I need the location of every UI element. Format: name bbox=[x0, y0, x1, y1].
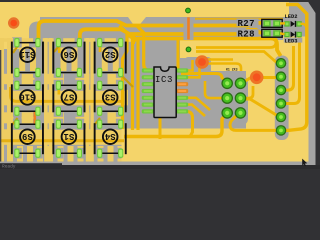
svg-text:S9: S9 bbox=[22, 131, 33, 141]
IC3 pads left bbox=[142, 68, 154, 113]
svg-text:R28: R28 bbox=[238, 30, 255, 40]
wire connector mid-right stub bbox=[242, 86, 253, 98]
connector grey base bbox=[220, 76, 249, 125]
board right copper region bbox=[246, 40, 309, 162]
IC3 body outline bbox=[154, 67, 176, 118]
wire R28 to LED3 bbox=[280, 33, 285, 34]
wire stub olive 1 bbox=[13, 46, 18, 53]
wire vertical fan 3 bbox=[131, 34, 139, 131]
header pin pads right column bbox=[276, 58, 287, 136]
wire stub olive 2 bbox=[54, 46, 59, 52]
wire stub bright S2 pad bbox=[99, 47, 102, 53]
switch S11 bbox=[11, 38, 44, 77]
wire vertical fan 1 bbox=[120, 26, 128, 130]
via green dot top bbox=[186, 8, 191, 13]
switch S1 bbox=[52, 120, 85, 158]
IC3 pin stubs left bbox=[142, 76, 153, 78]
ground pads blocks row 1 bbox=[12, 37, 125, 77]
wire V_a to header pad3 bbox=[284, 46, 294, 90]
board top-left copper patch bbox=[0, 17, 40, 49]
wire row2 horizontal bus bbox=[11, 87, 125, 101]
LED2 bbox=[284, 14, 302, 27]
wire stub olive 5 bbox=[121, 75, 133, 87]
wire pour behind switch row 2 bbox=[0, 90, 128, 106]
pad island grey blob under via bbox=[185, 57, 211, 72]
svg-text:S7: S7 bbox=[63, 92, 74, 102]
via green dot island bbox=[186, 47, 191, 52]
wire band above switch row 1 bbox=[0, 38, 134, 42]
svg-text:LED2: LED2 bbox=[285, 14, 298, 20]
wire bars inside row1 footprints bbox=[19, 48, 119, 72]
IC IC3 (DIP-14) bbox=[142, 60, 210, 118]
vertical bus wires (switch matrix comb) bbox=[0, 38, 94, 162]
svg-text:R27: R27 bbox=[238, 19, 255, 29]
svg-text:IC3: IC3 bbox=[155, 75, 173, 85]
wire stub olive 3 bbox=[95, 118, 100, 124]
wire IC3 bottom left drop bbox=[159, 118, 162, 139]
wire R27 to LED2 bbox=[280, 22, 285, 24]
via orange top-left bbox=[8, 17, 19, 28]
switch S7 bbox=[52, 81, 85, 116]
resistor R27 bbox=[237, 19, 283, 29]
connector B1 pads bbox=[221, 78, 246, 119]
svg-text:K1 2X3: K1 2X3 bbox=[226, 68, 238, 72]
board copper island near IC3 bbox=[180, 40, 246, 71]
switch S10 bbox=[11, 81, 44, 116]
board yellow wedge node bbox=[128, 17, 146, 26]
ground pads blocks rows 2-3 bbox=[12, 80, 125, 159]
wire IC3 pin7 drop bbox=[186, 111, 193, 136]
wire y51.5 to header pad1 bbox=[196, 52, 277, 63]
wire border trace top-right bbox=[283, 5, 307, 131]
switch S6 bbox=[52, 38, 85, 77]
LED3 bbox=[284, 32, 303, 45]
wire orange net bbox=[187, 17, 190, 39]
wire island H to connector bbox=[181, 74, 227, 83]
wire diagonal to header pad5 bbox=[242, 99, 281, 116]
svg-text:LED3: LED3 bbox=[285, 38, 298, 44]
wire stub bright S7 pad bbox=[57, 89, 60, 95]
via orange near island bbox=[195, 55, 209, 69]
wire island top pair bbox=[200, 58, 233, 61]
wire connector mid-left stub bbox=[205, 81, 227, 98]
header bar grey base bbox=[275, 56, 289, 141]
svg-text:S4: S4 bbox=[104, 131, 115, 141]
wire stub bright S6 pad bbox=[57, 47, 60, 54]
wire LED2 to border bbox=[301, 24, 308, 28]
svg-text:S1: S1 bbox=[63, 131, 74, 141]
wire y47.5 H bbox=[196, 39, 276, 48]
wire H137 bottom bbox=[124, 113, 227, 137]
IC3 pads right bbox=[176, 68, 188, 113]
switch S9 bbox=[11, 120, 44, 158]
IC3 pin stubs right bbox=[177, 60, 193, 71]
wire via2 diagonal bbox=[242, 78, 276, 84]
wire V_b to header pad4 bbox=[284, 37, 300, 104]
wire T1 horizontal bbox=[39, 21, 262, 41]
wire T2 horizontal bbox=[80, 29, 262, 41]
ground pour (grey editor field) bbox=[0, 2, 316, 165]
resistor R28 bbox=[237, 29, 283, 39]
board top copper band bbox=[0, 2, 289, 17]
wire upper stub H bbox=[195, 18, 283, 20]
window frame dark edges bbox=[0, 0, 320, 2]
svg-text:S3: S3 bbox=[105, 92, 116, 102]
wire blocks row gap 2 bbox=[0, 112, 122, 123]
ground channel for orange net bbox=[184, 17, 194, 40]
board left edge shadow bbox=[0, 50, 1, 162]
via orange right bbox=[250, 71, 264, 85]
wire blocks row gap 1 bbox=[0, 74, 122, 84]
wire to IC3 pin 1 bbox=[137, 26, 150, 71]
mouse cursor bbox=[302, 159, 307, 167]
svg-text:S2: S2 bbox=[105, 49, 116, 59]
wire T3 horizontal bbox=[133, 39, 281, 57]
svg-text:S11: S11 bbox=[19, 49, 36, 59]
wire island top pair 2 bbox=[200, 64, 241, 72]
switch S2 bbox=[94, 38, 127, 77]
switch S4 bbox=[94, 120, 127, 158]
wire pour behind switch row 3 bbox=[0, 129, 128, 145]
wire row3 horizontal bus bbox=[0, 139, 124, 142]
board bottom copper region bbox=[122, 129, 309, 162]
svg-text:Ready: Ready bbox=[2, 163, 16, 169]
wire island left border bbox=[177, 40, 180, 70]
svg-text:S6: S6 bbox=[63, 49, 74, 59]
wire H130 to header pad6 bbox=[230, 112, 277, 130]
wire stub orange vertical bbox=[33, 111, 36, 124]
switch S3 bbox=[94, 81, 127, 116]
wire comb below switch row 3 bbox=[0, 146, 134, 162]
window dark background bbox=[0, 0, 320, 169]
wire vertical fan 2 bbox=[125, 31, 133, 131]
wire stub olive 4 bbox=[12, 118, 18, 125]
svg-text:S10: S10 bbox=[19, 92, 35, 102]
